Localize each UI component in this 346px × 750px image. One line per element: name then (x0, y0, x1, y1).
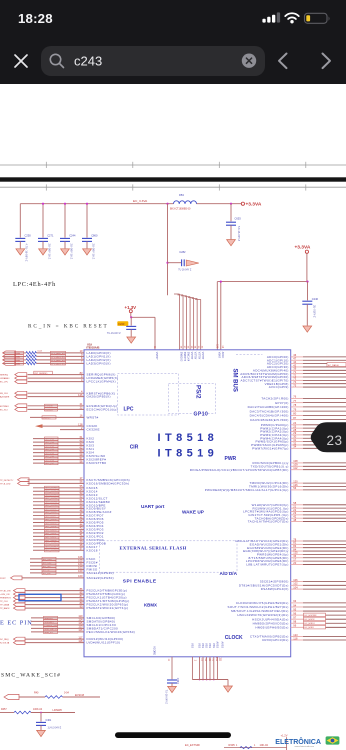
svg-text:DAC5/2BIG66(E/5.I500): DAC5/2BIG66(E/5.I500) (250, 418, 288, 422)
svg-text:SMC_WAKE_SCI#: SMC_WAKE_SCI# (1, 672, 61, 678)
svg-text:R457: R457 (1, 708, 7, 711)
capacitor C444 on VCORE (171, 657, 173, 679)
svg-text:WRST#: WRST# (87, 416, 99, 420)
sheet border: zone ticks top (45, 162, 47, 168)
svg-text:EC_HSDO: EC_HSDO (305, 623, 316, 625)
svg-text:C244: C244 (69, 233, 76, 237)
svg-text:FB3: FB3 (179, 193, 184, 197)
svg-text:UART port: UART port (141, 504, 165, 509)
sheet border: current page top rule (0, 186, 346, 188)
WRST row (42, 416, 56, 419)
svg-text:C246: C246 (312, 297, 319, 301)
svg-text:104: 104 (293, 585, 298, 589)
svg-text:105: 105 (78, 559, 83, 563)
svg-text:AVCC: AVCC (221, 352, 224, 359)
KSO keyboard output rows KEY_OUT0-15 (45, 486, 60, 489)
svg-text:RC_IN = KBC RESET: RC_IN = KBC RESET (28, 324, 109, 330)
capacitor C271 (42, 204, 44, 238)
junction (166, 262, 168, 264)
CAN clock rows (291, 636, 303, 638)
svg-text:C282: C282 (179, 250, 186, 254)
svg-text:SSCE2#(GPG50): SSCE2#(GPG50) (87, 576, 114, 580)
svg-text:EC_EXTSMI: EC_EXTSMI (185, 743, 200, 747)
svg-text:R482: R482 (15, 360, 21, 362)
svg-text:BK3-CT1608BS 60: BK3-CT1608BS 60 (170, 208, 191, 211)
next result chevron (323, 54, 331, 69)
svg-text:EXTERNAL SERIAL FLASH: EXTERNAL SERIAL FLASH (120, 545, 187, 550)
svg-text:112: 112 (293, 466, 298, 470)
sheet border: zone ticks bottom (45, 184, 47, 190)
svg-text:EC_3.3VA: EC_3.3VA (133, 199, 148, 203)
svg-text:VSTBY: VSTBY (155, 352, 158, 360)
svg-text:120: 120 (293, 479, 298, 483)
svg-text:2U-08Y-16-Z: 2U-08Y-16-Z (47, 244, 51, 260)
svg-text:VSTBY: VSTBY (197, 352, 199, 360)
dashed box PS2/GPIO section (169, 384, 216, 414)
svg-text:C461: C461 (46, 719, 52, 722)
svg-text:POST: POST (0, 578, 6, 580)
svg-text:VBAT: VBAT (217, 352, 220, 359)
svg-text:126: 126 (78, 393, 83, 397)
junction (40, 712, 42, 714)
junction (306, 281, 308, 283)
svg-text:IT8519: IT8519 (158, 448, 219, 460)
capacitor C244 (64, 204, 66, 238)
svg-text:106: 106 (293, 578, 298, 582)
wire (286, 737, 288, 750)
svg-text:0-04: 0-04 (38, 350, 43, 352)
capacitor C246 (307, 282, 309, 301)
capacitor C250 (19, 204, 21, 238)
wire: VCC feeder (217, 281, 307, 283)
capacitor C243 (search highlight) (130, 317, 132, 325)
sheet border: thick page edge (0, 177, 346, 181)
svg-text:R481: R481 (15, 356, 21, 358)
svg-text:VSS: VSS (198, 643, 201, 648)
svg-text:GP10: GP10 (194, 411, 209, 417)
dashed box serial flash section (100, 541, 238, 572)
wire bus: 7 SMB/flash drops into IC top (179, 294, 181, 350)
svg-text:TP_BACK: TP_BACK (0, 607, 10, 610)
svg-text:PWM7(RIG1#(GPA7(p): PWM7(RIG1#(GPA7(p) (252, 446, 289, 450)
dashed line SMBUS section (236, 354, 262, 356)
wire: VCC pin drops (216, 282, 218, 350)
capacitor C653 (230, 204, 232, 222)
GPE rows (291, 540, 303, 542)
svg-text:EC_HSCMI#: EC_HSCMI# (305, 615, 318, 617)
LPC AD bus rows with series resistor pack RP (R480-R483) (3, 352, 26, 354)
svg-text:+LBV_ON: +LBV_ON (0, 594, 10, 596)
svg-text:C444: C444 (176, 678, 179, 685)
ADC rows (291, 356, 303, 358)
svg-text:SERIRQ: SERIRQ (0, 375, 8, 377)
svg-text:LIDSW#: LIDSW# (53, 709, 63, 712)
svg-text:PS/2: PS/2 (195, 385, 202, 399)
svg-text:VSTBY: VSTBY (190, 352, 192, 360)
svg-text:LAD3(GPN3(X): LAD3(GPN3(X) (87, 362, 111, 366)
status bar signal icon (262, 19, 265, 23)
SPI flash rows (42, 557, 56, 560)
svg-text:INT_SERIRQ: INT_SERIRQ (35, 373, 48, 375)
svg-text:4.7U-16-08Y-Z: 4.7U-16-08Y-Z (25, 244, 29, 262)
VSS pin bundle (191, 657, 193, 680)
CK32K rows (35, 424, 43, 428)
search clear button (242, 54, 256, 68)
SMBus rows (44, 616, 58, 619)
svg-text:SM BUS: SM BUS (232, 369, 238, 392)
prev result chevron (279, 54, 287, 69)
svg-text:123: 123 (293, 633, 298, 637)
svg-text:114: 114 (78, 618, 83, 622)
svg-text:PWR: PWR (225, 456, 237, 462)
svg-text:R483: R483 (15, 363, 21, 365)
svg-text:2U-016Y-Z: 2U-016Y-Z (313, 305, 317, 318)
svg-text:TU-16-04Y-Z: TU-16-04Y-Z (164, 690, 167, 705)
svg-text:TP_DETECT#: TP_DETECT# (0, 480, 14, 482)
svg-text:KSI0/STTB#: KSI0/STTB# (87, 461, 107, 465)
svg-text:EC_LPC: EC_LPC (0, 382, 9, 384)
svg-text:VSTBY: VSTBY (201, 352, 203, 360)
svg-text:23: 23 (327, 433, 343, 448)
svg-text:108: 108 (293, 459, 298, 463)
svg-text:PRESENT#: PRESENT# (0, 598, 12, 600)
svg-text:C243: C243 (118, 322, 125, 326)
svg-text:ECSCI#: ECSCI# (75, 694, 85, 697)
svg-text:R480: R480 (15, 353, 21, 355)
svg-text:LPC:4Eh-4Fh: LPC:4Eh-4Fh (13, 281, 56, 288)
UART rows (291, 462, 303, 464)
svg-text:c243: c243 (74, 54, 102, 69)
svg-text:A20GATE: A20GATE (0, 396, 10, 399)
home indicator (115, 732, 231, 738)
wire: 3.3VA drop to SMB bundle (167, 204, 169, 296)
GPG rows (291, 581, 303, 583)
svg-text:CLOCK: CLOCK (225, 635, 243, 641)
svg-text:LPCCLK(GPM4(X): LPCCLK(GPM4(X) (87, 380, 116, 384)
svg-text:SSCE1#(GPG30): SSCE1#(GPG30) (87, 571, 114, 575)
DAC / TACH rows (291, 397, 303, 399)
svg-text:SMCLK4: SMCLK4 (187, 352, 189, 362)
svg-text:SPI ENABLE: SPI ENABLE (123, 579, 157, 585)
junction (166, 203, 168, 205)
svg-text:118: 118 (293, 636, 298, 640)
svg-text:LFRAME#: LFRAME# (0, 377, 10, 380)
svg-text:KSO16/SMBSD#(GPC3Dh): KSO16/SMBSD#(GPC3Dh) (87, 482, 130, 486)
svg-text:TU-16-04Y-Z: TU-16-04Y-Z (107, 332, 121, 335)
svg-text:AVCC(GPI9): AVCC(GPI9) (269, 385, 289, 389)
svg-text:126: 126 (293, 483, 298, 487)
resistor R457 (0, 712, 14, 714)
status/search bar background (0, 0, 346, 84)
dashed box LPC section (118, 374, 179, 416)
svg-text:VCORE: VCORE (153, 646, 156, 655)
svg-text:IT8518: IT8518 (158, 432, 219, 444)
svg-text:EC_HSCK: EC_HSCK (305, 619, 316, 621)
wire: EC_3.3VA rail (20, 203, 173, 205)
svg-text:KBMX: KBMX (144, 603, 157, 608)
svg-text:ELETRÔNICA: ELETRÔNICA (275, 737, 321, 746)
svg-text:GA20(GPB5(X): GA20(GPB5(X) (87, 395, 111, 399)
net flag EC_SCI (4, 694, 19, 699)
svg-text:C250: C250 (25, 233, 32, 237)
svg-text:117: 117 (78, 635, 83, 639)
svg-text:E EC PIN: E EC PIN (0, 619, 33, 626)
ground for VSS (224, 686, 233, 692)
search field (41, 46, 265, 76)
svg-text:106: 106 (78, 555, 83, 559)
page number badge 23 (311, 422, 346, 452)
junction (64, 203, 66, 205)
resistor R40 (19, 696, 45, 698)
svg-text:109: 109 (293, 463, 298, 467)
junction (230, 203, 232, 205)
svg-text:CIR: CIR (130, 444, 139, 450)
svg-text:WAKE UP: WAKE UP (182, 509, 204, 514)
wire (130, 313, 132, 318)
svg-text:2U-08Y-16-Z: 2U-08Y-16-Z (69, 244, 73, 260)
svg-text:IT8518A/B: IT8518A/B (86, 346, 99, 350)
svg-text:HM05I(GPH6/B3(Dx): HM05I(GPH6/B3(Dx) (255, 625, 288, 629)
svg-text:SMBDT3: SMBDT3 (183, 352, 185, 362)
junction (42, 203, 44, 205)
wire: +3.3VA down (306, 253, 308, 281)
svg-text:1U-6.3-04Y-Z: 1U-6.3-04Y-Z (48, 727, 62, 729)
svg-text:VSS: VSS (208, 643, 211, 648)
svg-text:VSS: VSS (212, 643, 215, 648)
svg-text:100: 100 (78, 574, 83, 578)
svg-text:DC_REQ: DC_REQ (0, 639, 9, 641)
svg-text:EC_RA100: EC_RA100 (328, 364, 340, 367)
svg-text:104: 104 (78, 562, 83, 566)
svg-text:PWURE2#(W)Q/M8K3UT/SMCL/A2/AL1: PWURE2#(W)Q/M8K3UT/SMCL/A2/AL1?(G/PC1(Up… (205, 488, 289, 492)
svg-text:LVD#(WUI11(GPF10): LVD#(WUI11(GPF10) (87, 641, 121, 645)
svg-text:KB_CLK: KB_CLK (0, 393, 9, 395)
svg-text:+3.3VA: +3.3VA (246, 202, 262, 208)
svg-text:TACH1A/TM41(GPD7(Dx): TACH1A/TM41(GPD7(Dx) (248, 520, 289, 524)
GPH rows with EC_HS labels (291, 602, 303, 604)
svg-text:116: 116 (78, 628, 83, 632)
svg-text:N_VOLTA: N_VOLTA (0, 642, 10, 645)
svg-text:EC_HSDI: EC_HSDI (305, 627, 315, 629)
svg-text:ECSCI#(GPD1(i)(p): ECSCI#(GPD1(i)(p) (87, 408, 118, 412)
svg-text:VSS: VSS (205, 643, 208, 648)
svg-text:100K-04: 100K-04 (33, 708, 43, 711)
wire: VSTBY pin drop (154, 317, 156, 350)
svg-text:R40: R40 (34, 691, 39, 694)
svg-text:VSS: VSS (191, 643, 194, 648)
status bar wifi icon (285, 13, 299, 19)
svg-text:L8B.LAT/WRUT(GPE7(Up): L8B.LAT/WRUT(GPE7(Up) (246, 563, 288, 567)
svg-text:CK32KE: CK32KE (87, 428, 100, 432)
search magnifier icon (50, 54, 60, 64)
ferrite bead FB3 (174, 201, 180, 204)
svg-text:102: 102 (293, 582, 298, 586)
svg-text:EXTSMI#: EXTSMI# (0, 406, 10, 408)
svg-text:R335: R335 (229, 743, 236, 747)
svg-text:www.eletronicabr.com: www.eletronicabr.com (295, 745, 315, 748)
svg-text:C653: C653 (235, 217, 242, 221)
svg-text:18:28: 18:28 (18, 11, 53, 26)
svg-text:EC_SCI: EC_SCI (0, 409, 8, 411)
WAKE UP rows (291, 482, 303, 484)
svg-text:AVSS: AVSS (221, 642, 224, 649)
svg-text:LPC: LPC (124, 406, 134, 412)
capacitor C282 (168, 262, 182, 264)
svg-text:PS2DAT2/WUI21(GP74(p): PS2DAT2/WUI21(GP74(p) (87, 606, 129, 610)
power symbol +3.3VA (top) (241, 202, 244, 205)
svg-text:128: 128 (78, 422, 83, 426)
svg-text:+1.3V: +1.3V (125, 305, 137, 310)
svg-text:C271: C271 (47, 233, 54, 237)
search selection box (blue) (19, 594, 61, 600)
svg-text:SMBCK3: SMBCK3 (180, 352, 182, 362)
svg-text:C860: C860 (91, 233, 98, 237)
svg-text:VSTBY: VSTBY (194, 352, 196, 360)
svg-text:DSA8W(GPG9(X): DSA8W(GPG9(X) (261, 587, 289, 591)
junction (130, 316, 132, 318)
svg-text:TP_CLK: TP_CLK (0, 601, 8, 603)
svg-text:TP_DATA: TP_DATA (0, 604, 10, 607)
wire: VSS bus (192, 679, 228, 681)
capacitor C860 (86, 204, 88, 238)
svg-text:RINGA/PWRFAIL#(/CK1/(2BKOUT/LP: RINGA/PWRFAIL#(/CK1/(2BKOUT/LPCRST#/WUI4… (190, 468, 289, 472)
svg-text:KSO18: KSO18 (87, 548, 98, 552)
svg-text:115: 115 (78, 621, 83, 625)
sheet border: previous page bottom rule (0, 164, 346, 166)
power arrow on C282 (186, 260, 199, 266)
op IC U19 IT8518 outline (84, 350, 291, 657)
junction (86, 203, 88, 205)
svg-text:VSS: VSS (201, 643, 204, 648)
svg-text:PECI/SMCLK2/WUI26(GPF60): PECI/SMCLK2/WUI26(GPF60) (87, 630, 136, 634)
svg-text:110: 110 (78, 614, 83, 618)
svg-text:CRX0(GPC3(Dx): CRX0(GPC3(Dx) (262, 638, 289, 642)
status bar battery icon (305, 13, 328, 23)
svg-text:118: 118 (78, 639, 83, 643)
svg-text:+1.2V: +1.2V (281, 734, 288, 738)
svg-text:2U-08Y-16-Z: 2U-08Y-16-Z (91, 244, 95, 260)
KSI keyboard input rows KEY_IN0-7 (45, 437, 59, 440)
svg-text:113: 113 (78, 625, 83, 629)
svg-text:103: 103 (78, 566, 83, 570)
svg-text:TP_B_LED: TP_B_LED (0, 483, 11, 485)
svg-text:AVSS: AVSS (216, 642, 219, 649)
svg-text:TU 16-04Y Z: TU 16-04Y Z (178, 270, 192, 272)
PWM rows (291, 424, 303, 426)
svg-text:10K-04: 10K-04 (260, 743, 269, 747)
search close button (15, 55, 27, 67)
svg-text:TP_BL_EN: TP_BL_EN (0, 591, 11, 593)
svg-text:5.6-16-04Y-Z: 5.6-16-04Y-Z (237, 226, 241, 241)
capacitor C461 (40, 713, 42, 722)
svg-text:0-04: 0-04 (64, 691, 69, 694)
wake input rows (291, 504, 303, 506)
svg-text:100: 100 (78, 569, 83, 573)
svg-text:+3.3VA: +3.3VA (295, 245, 311, 251)
